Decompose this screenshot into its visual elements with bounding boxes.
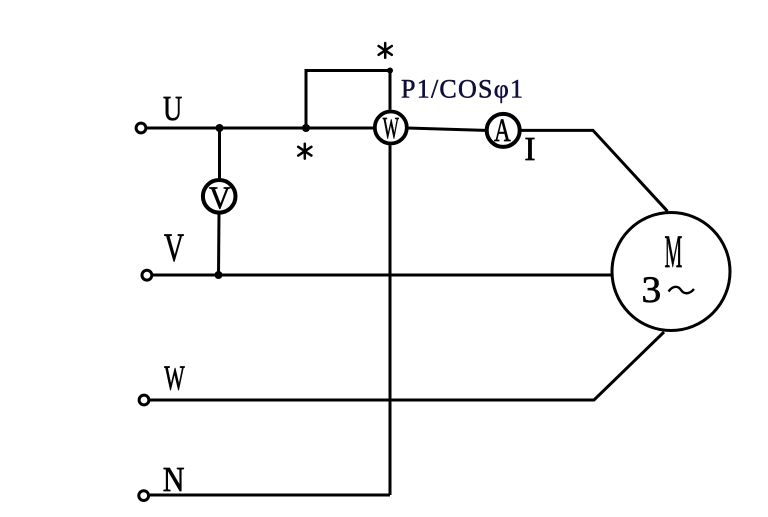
wattmeter W xyxy=(375,112,407,144)
terminal N xyxy=(139,491,149,501)
wire wattmeter voltage-coil down xyxy=(389,145,392,495)
wire wattmeter voltage-coil bridge xyxy=(306,71,390,129)
node junction U-bridge xyxy=(302,124,310,132)
label motor tilde xyxy=(669,287,695,293)
wire wattmeter to ammeter xyxy=(408,128,486,130)
svg-text:3: 3 xyxy=(642,270,662,310)
svg-text:A: A xyxy=(494,113,511,149)
label polarity asterisk top xyxy=(379,43,392,58)
wire voltmeter branch top xyxy=(218,128,221,180)
wire V line xyxy=(153,274,612,277)
terminal V xyxy=(142,270,152,280)
svg-text:W: W xyxy=(164,359,185,397)
svg-text:U: U xyxy=(163,88,182,127)
voltmeter V xyxy=(203,180,236,213)
wire voltmeter branch bottom xyxy=(217,213,221,275)
svg-text:I: I xyxy=(524,131,535,168)
wire W line xyxy=(150,332,664,400)
wire ammeter to motor xyxy=(521,130,668,211)
wire U line xyxy=(147,127,374,130)
ammeter A xyxy=(487,114,520,147)
svg-text:W: W xyxy=(383,112,399,145)
node bridge corner dot xyxy=(387,68,393,74)
wire N line xyxy=(150,494,390,497)
svg-text:M: M xyxy=(665,225,683,277)
svg-text:P1/COSφ1: P1/COSφ1 xyxy=(401,75,524,104)
node junction U-voltmeter xyxy=(216,124,224,132)
terminal W xyxy=(139,395,149,405)
svg-text:V: V xyxy=(164,226,184,270)
svg-text:V: V xyxy=(209,180,230,216)
motor M xyxy=(612,213,730,331)
node junction V-voltmeter xyxy=(215,271,223,279)
label polarity asterisk bottom xyxy=(298,144,311,159)
terminal U xyxy=(136,123,146,133)
